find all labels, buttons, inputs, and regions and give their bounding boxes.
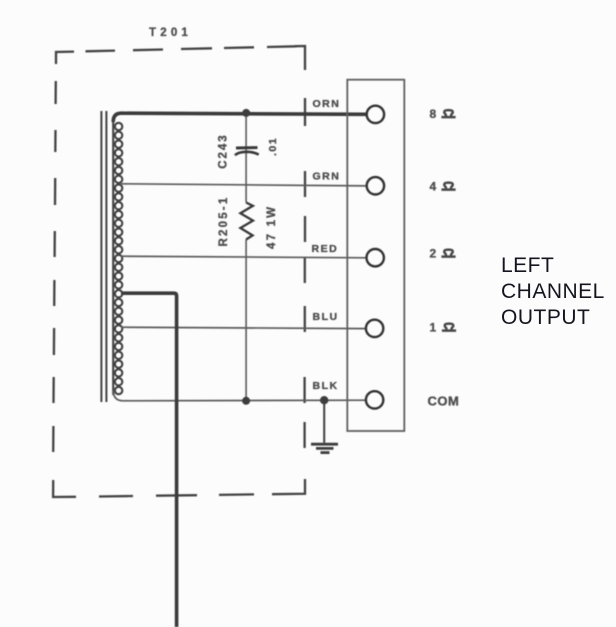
transformer T201 dashed enclosure : right edge [303,98,306,448]
terminal: 1 ohm [366,320,383,337]
transformer T201 dashed enclosure : bottom edge [53,479,305,497]
wire: vertical branch for C243/R205-1 [245,113,247,401]
svg-text:RED: RED [312,243,339,255]
ground symbol [311,400,338,452]
svg-text:BLU: BLU [313,311,339,323]
node: junction dot at top of C243 branch [242,109,250,117]
annotation: LEFT CHANNEL OUTPUT [501,253,605,332]
terminal: 8 ohm [367,106,384,123]
svg-text:COM: COM [428,394,460,409]
wire: RED tap to 2-ohm terminal [121,256,367,258]
transformer core laminations (two vertical bars) [101,111,106,402]
node: junction dot at ground tap on BLK wire [320,396,328,404]
wire: ORN thick top wire from winding top to 8-ohm terminal [113,113,367,122]
wire: BLK bottom wire from winding bottom to COM terminal [113,390,367,401]
svg-text:GRN: GRN [313,171,341,183]
transformer T201 dashed enclosure : top edge [56,46,305,70]
svg-text:C243: C243 [218,133,230,169]
wire: thick center-tap wire going down out of the box [121,293,177,627]
transformer T201 dashed enclosure : left edge [53,81,56,452]
svg-text:ORN: ORN [313,98,341,110]
capacitor C243 (.01) [235,148,259,156]
resistor R205-1 (47 1W) zigzag [240,203,253,240]
wire: GRN tap to 4-ohm terminal [121,184,367,186]
node: junction dot at bottom of R205-1 branch [242,397,250,405]
svg-text:1: 1 [430,321,437,335]
transformer secondary winding (stem + loops) [113,119,122,395]
svg-text:47 1W: 47 1W [266,205,278,249]
svg-text:T201: T201 [149,27,192,39]
svg-text:8: 8 [430,107,437,121]
terminal: 2 ohm [367,249,384,266]
svg-text:4: 4 [430,180,437,194]
svg-text:BLK: BLK [313,380,339,392]
terminal: COM [366,391,383,408]
wire: BLU tap to 1-ohm terminal [121,327,367,328]
svg-text:2: 2 [430,247,437,261]
svg-text:.01: .01 [267,137,279,156]
terminal: 4 ohm [367,177,384,194]
terminal strip outline [347,80,404,431]
svg-text:R205-1: R205-1 [218,196,230,247]
